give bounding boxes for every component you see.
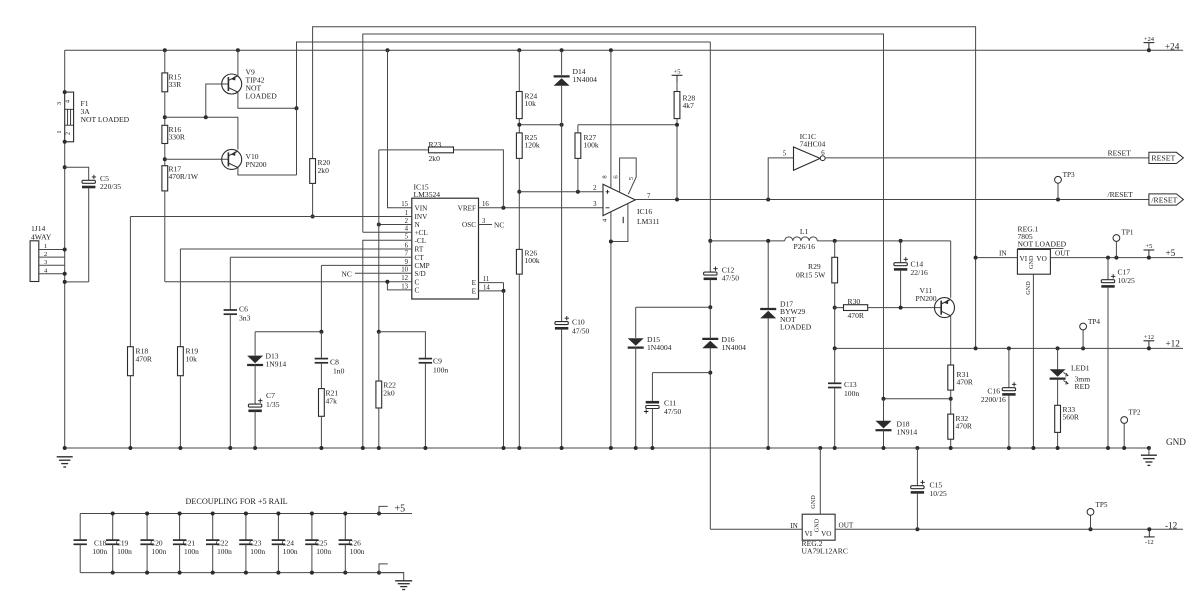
svg-text:PN200: PN200 xyxy=(246,160,267,169)
ground main left xyxy=(57,457,73,467)
svg-text:VO: VO xyxy=(821,530,831,538)
svg-text:R23: R23 xyxy=(429,140,442,149)
resistor R32 xyxy=(948,414,954,439)
resistor R30 xyxy=(844,305,868,311)
svg-text:LM3524: LM3524 xyxy=(414,190,441,199)
capacitor C14 xyxy=(900,241,902,263)
wire R28 bottom to output xyxy=(676,119,678,200)
transistor V11 PN200 xyxy=(935,298,955,318)
node R15/R16 junction xyxy=(163,115,167,119)
svg-text:E: E xyxy=(472,288,477,296)
node N junction R22 xyxy=(377,223,381,227)
svg-text:16: 16 xyxy=(482,201,489,208)
wire VREF pin16 line xyxy=(479,207,604,209)
resistor R25 xyxy=(516,133,522,159)
svg-text:100k: 100k xyxy=(525,256,540,265)
svg-text:TP2: TP2 xyxy=(1129,409,1141,417)
svg-text:C7: C7 xyxy=(266,391,275,400)
svg-text:RED: RED xyxy=(1075,382,1091,391)
wire -12 rail xyxy=(835,528,1183,530)
capacitor C10 xyxy=(555,316,569,328)
capacitor C21 xyxy=(179,514,181,541)
svg-text:6: 6 xyxy=(821,150,825,157)
wire E pins 11/14 xyxy=(479,282,504,284)
svg-text:+12: +12 xyxy=(1144,334,1154,341)
connector 1J14 xyxy=(30,241,39,282)
capacitor C20 xyxy=(146,514,148,541)
svg-text:7: 7 xyxy=(405,251,409,258)
resistor R24 xyxy=(518,50,520,91)
svg-text:100n: 100n xyxy=(350,547,365,556)
svg-text:NC: NC xyxy=(342,269,352,278)
svg-text:560R: 560R xyxy=(1063,413,1080,422)
node R25/R26 to comparator xyxy=(517,190,521,194)
resistor R19 xyxy=(179,249,181,347)
svg-text:C8: C8 xyxy=(330,357,339,366)
svg-text:1N4004: 1N4004 xyxy=(573,75,598,84)
capacitor C15 xyxy=(916,448,918,486)
wire R25 to R26 xyxy=(518,158,520,249)
wire 1J14 pin 1 xyxy=(39,249,65,251)
svg-text:PN200: PN200 xyxy=(916,294,937,303)
capacitor C18 xyxy=(79,514,81,541)
flag /RESET xyxy=(1149,194,1184,205)
capacitor C16 xyxy=(1008,348,1010,387)
svg-text:GND: GND xyxy=(1025,281,1032,295)
node R20 to INV xyxy=(311,215,315,219)
svg-text:C26: C26 xyxy=(349,539,362,548)
svg-text:L1: L1 xyxy=(800,227,809,236)
svg-text:1/35: 1/35 xyxy=(266,400,280,409)
svg-text:-12: -12 xyxy=(1165,521,1178,531)
svg-text:470R: 470R xyxy=(136,355,153,364)
power flag +24 xyxy=(1148,43,1150,51)
svg-text:100n: 100n xyxy=(283,547,298,556)
node R29/R30 junction xyxy=(833,306,837,310)
resistor R27 xyxy=(575,133,581,159)
svg-text:3: 3 xyxy=(482,218,486,225)
ground decoupling xyxy=(395,581,412,590)
svg-text:P26/16: P26/16 xyxy=(794,242,816,251)
svg-text:IC16: IC16 xyxy=(637,207,652,216)
power flag +5 xyxy=(1148,250,1150,258)
svg-text:TP3: TP3 xyxy=(1063,171,1075,179)
svg-text:100k: 100k xyxy=(584,141,599,150)
svg-text:470R: 470R xyxy=(957,378,974,387)
wire +5 rail xyxy=(1050,257,1183,259)
svg-text:VREF: VREF xyxy=(458,204,476,212)
svg-text:10/25: 10/25 xyxy=(930,489,948,498)
svg-text:2: 2 xyxy=(44,251,47,258)
svg-text:11: 11 xyxy=(483,276,490,283)
svg-text:1N4004: 1N4004 xyxy=(647,343,672,352)
svg-text:10k: 10k xyxy=(525,99,537,108)
node emitter tie xyxy=(295,106,299,110)
resistor R22 xyxy=(376,381,382,408)
test point TP5 xyxy=(1090,515,1092,529)
svg-text:+CL: +CL xyxy=(415,229,428,237)
svg-text:C20: C20 xyxy=(150,539,163,548)
node fuse junctions xyxy=(63,90,67,169)
wire R17 bottom to LM3524 C pins xyxy=(164,191,166,282)
node decoupling top junctions xyxy=(111,512,381,516)
svg-text:4WAY: 4WAY xyxy=(31,233,52,242)
svg-text:VI: VI xyxy=(1020,255,1028,263)
wire decoupling +5 rail xyxy=(80,513,412,515)
svg-text:LED1: LED1 xyxy=(1071,364,1090,373)
svg-text:+5: +5 xyxy=(395,503,406,514)
svg-text:RESET: RESET xyxy=(1108,148,1132,157)
node LM311 ground strap xyxy=(609,240,613,244)
svg-text:C: C xyxy=(415,287,420,295)
svg-text:470R: 470R xyxy=(848,311,865,320)
wire V10 base xyxy=(165,158,229,160)
wire CMP pin9 line xyxy=(321,264,411,266)
wire R29 bottom xyxy=(834,283,836,308)
svg-text:470R: 470R xyxy=(956,422,973,431)
wire INV pin1 line xyxy=(130,216,411,218)
svg-text:C23: C23 xyxy=(249,539,262,548)
diode D14 1N4004 xyxy=(561,50,563,75)
svg-text:2k0: 2k0 xyxy=(383,389,395,398)
test point TP4 xyxy=(1082,330,1084,349)
node decoupling bottom junctions xyxy=(111,571,381,575)
svg-text:10: 10 xyxy=(401,267,408,274)
wire LM311 pins 1/4 to ground xyxy=(610,212,612,242)
svg-text:1N4004: 1N4004 xyxy=(722,343,747,352)
wire D14 column to C10 xyxy=(561,86,563,322)
svg-text:100n: 100n xyxy=(250,547,265,556)
wire C pins 12/13 xyxy=(165,281,412,283)
capacitor C12 xyxy=(709,241,711,272)
svg-text:NOT LOADED: NOT LOADED xyxy=(81,115,130,124)
svg-text:100n: 100n xyxy=(316,547,331,556)
capacitor C9 xyxy=(379,332,426,359)
wire top feedback line y27 (R20 top to REG1 in) xyxy=(313,27,976,349)
svg-text:C18: C18 xyxy=(94,539,107,548)
capacitor C22 xyxy=(212,514,214,541)
capacitor C23 xyxy=(245,514,247,541)
node +24 rail junctions xyxy=(163,48,1151,52)
svg-text:2200/16: 2200/16 xyxy=(981,395,1006,404)
node CMP junction xyxy=(319,330,323,334)
svg-text:330R: 330R xyxy=(169,133,186,142)
node +12 rail junctions xyxy=(833,346,1151,350)
transistor V10 PN200 xyxy=(222,149,242,169)
svg-text:C: C xyxy=(415,278,420,286)
svg-text:VI: VI xyxy=(805,530,813,538)
wire +CL sense line y34 xyxy=(363,34,884,399)
diode D15 1N4004 xyxy=(635,307,637,338)
wire GND rail xyxy=(65,447,1149,449)
svg-text:GND: GND xyxy=(810,495,817,509)
svg-text:0R15 5W: 0R15 5W xyxy=(796,271,826,280)
power flag +5 at R28 xyxy=(676,75,678,83)
svg-text:C22: C22 xyxy=(216,539,229,548)
svg-text:47/50: 47/50 xyxy=(572,327,590,336)
wire R24/R25 junction xyxy=(518,119,520,133)
svg-text:22/16: 22/16 xyxy=(911,268,929,277)
wire S/D pin10 NC stub xyxy=(355,272,412,274)
diode LED1 xyxy=(1057,348,1059,370)
wire C5 branch xyxy=(65,167,89,180)
svg-text:C19: C19 xyxy=(116,539,129,548)
svg-text:1: 1 xyxy=(56,130,63,133)
svg-text:6: 6 xyxy=(405,242,409,249)
test point TP2 xyxy=(1123,423,1125,448)
node C14 bottom junction xyxy=(899,306,903,310)
wire -12 feed to REG2 xyxy=(710,528,802,530)
node D17 top xyxy=(766,239,770,243)
svg-text:47/50: 47/50 xyxy=(722,273,740,282)
svg-text:-12: -12 xyxy=(1145,539,1154,546)
svg-text:E: E xyxy=(472,279,477,287)
wire C5 bottom to main xyxy=(65,281,89,283)
resistor R28 xyxy=(674,92,680,119)
svg-text:DECOUPLING FOR +5 RAIL: DECOUPLING FOR +5 RAIL xyxy=(186,497,288,506)
svg-text:4k7: 4k7 xyxy=(683,101,695,110)
wire D16 to C11 and -12 feed xyxy=(709,348,711,530)
svg-text:100n: 100n xyxy=(92,547,107,556)
wire base V9 / collector V10 xyxy=(165,117,238,149)
svg-text:2k0: 2k0 xyxy=(318,166,330,175)
svg-text:+5: +5 xyxy=(1145,243,1153,250)
svg-text:GND: GND xyxy=(1028,255,1035,269)
resistor R17 xyxy=(162,166,168,191)
svg-text:C13: C13 xyxy=(844,380,857,389)
wire to D15 xyxy=(636,306,711,308)
svg-text:100n: 100n xyxy=(217,547,232,556)
svg-text:OUT: OUT xyxy=(839,521,854,529)
node R28 junction xyxy=(675,123,679,127)
svg-text:INV: INV xyxy=(415,213,429,221)
diode D13 1N914 xyxy=(254,332,256,356)
test point TP3 xyxy=(1057,183,1059,199)
svg-text:UA79L12ARC: UA79L12ARC xyxy=(802,547,848,556)
svg-text:LOADED: LOADED xyxy=(246,92,278,101)
wire REG1 gnd to ground rail xyxy=(1032,274,1034,448)
wire switch node down xyxy=(709,42,711,241)
svg-text:C6: C6 xyxy=(239,305,248,314)
op-amp IC15 LM3524 box xyxy=(412,198,479,299)
power flag -12 xyxy=(1148,529,1150,537)
inverter IC1C 74HC04 xyxy=(794,147,826,170)
capacitor C7 xyxy=(254,364,256,404)
svg-text:2k0: 2k0 xyxy=(429,154,441,163)
resistor R26 xyxy=(516,249,522,274)
resistor R18 xyxy=(129,217,131,347)
resistor R21 xyxy=(319,389,325,417)
svg-text:NC: NC xyxy=(494,220,504,229)
svg-text:1: 1 xyxy=(44,243,47,250)
svg-text:C25: C25 xyxy=(315,539,328,548)
wire R16-R17 xyxy=(164,144,166,166)
node sense junction xyxy=(882,397,886,401)
svg-text:RT: RT xyxy=(415,246,424,254)
wire RT pin6 line xyxy=(180,248,411,250)
wire +CL pin4 stub xyxy=(363,231,412,233)
capacitor C24 xyxy=(277,514,279,541)
regulator REG.2 UA79L12ARC xyxy=(802,514,835,540)
wire +12 rail xyxy=(835,347,1183,349)
wire emitter switch line y42 xyxy=(297,42,711,175)
ground main right xyxy=(1148,448,1150,455)
svg-text:10k: 10k xyxy=(186,355,198,364)
wire V11 collector to R31 xyxy=(950,316,952,365)
svg-text:C9: C9 xyxy=(433,357,442,366)
svg-text:C21: C21 xyxy=(183,539,196,548)
svg-text:/RESET: /RESET xyxy=(1107,190,1133,199)
resistor R16 xyxy=(162,125,168,143)
node L1 output junctions xyxy=(833,239,903,243)
svg-text:GND: GND xyxy=(813,518,820,532)
svg-text:4: 4 xyxy=(405,226,409,233)
svg-text:+5: +5 xyxy=(1166,248,1176,258)
resistor R23 xyxy=(379,149,429,151)
capacitor C26 xyxy=(344,514,346,541)
capacitor C5 xyxy=(82,175,96,187)
resistor R20 xyxy=(310,159,316,184)
wire V9 emitter xyxy=(238,92,297,108)
svg-text:1n0: 1n0 xyxy=(333,366,345,375)
wire inverter input xyxy=(768,158,793,200)
svg-text:TP4: TP4 xyxy=(1088,318,1100,326)
power flag +12 xyxy=(1148,341,1150,349)
test point TP1 xyxy=(1115,241,1117,257)
wire decoupling gnd rail xyxy=(80,572,404,574)
svg-text:2: 2 xyxy=(593,185,597,192)
svg-text:R30: R30 xyxy=(848,297,861,306)
resistor R29 xyxy=(834,241,836,257)
svg-text:+24: +24 xyxy=(1144,36,1155,43)
wire V10 emitter xyxy=(238,108,297,175)
svg-text:220/35: 220/35 xyxy=(100,182,121,191)
node V10 base junction xyxy=(163,157,167,161)
wire LM311 pin8 to +24 xyxy=(610,50,612,188)
resistor R31 xyxy=(948,365,954,390)
svg-text:/RESET: /RESET xyxy=(1151,195,1177,204)
node output junctions xyxy=(675,198,1060,202)
svg-text:RESET: RESET xyxy=(1151,154,1175,163)
svg-text:1: 1 xyxy=(405,210,408,217)
svg-text:TP5: TP5 xyxy=(1096,501,1108,509)
capacitor C19 xyxy=(112,514,114,541)
inductor L1 xyxy=(785,237,818,241)
node R31/R32 xyxy=(949,397,953,401)
node C pins junction xyxy=(385,280,389,284)
wire 1J14 pin 3 xyxy=(39,264,65,266)
svg-text:GND: GND xyxy=(1166,437,1186,447)
wire +24 rail xyxy=(65,49,1183,51)
wire comparator output /RESET line xyxy=(635,199,1149,201)
node GND rail junctions xyxy=(63,446,1151,450)
svg-text:2: 2 xyxy=(64,132,71,135)
svg-text:1N914: 1N914 xyxy=(266,360,287,369)
svg-text:IN: IN xyxy=(790,522,798,530)
svg-text:100n: 100n xyxy=(433,366,448,375)
svg-text:+12: +12 xyxy=(1166,339,1181,349)
node switch junction xyxy=(708,239,712,243)
svg-text:VIN: VIN xyxy=(415,204,429,212)
svg-text:TP1: TP1 xyxy=(1122,229,1134,237)
wire RESET line xyxy=(825,157,1149,159)
svg-text:OUT: OUT xyxy=(1055,249,1070,257)
node R27 to plus input xyxy=(576,190,580,194)
svg-text:10/25: 10/25 xyxy=(1118,276,1136,285)
svg-text:12: 12 xyxy=(401,275,408,282)
power tap +5 decoupling xyxy=(379,506,388,513)
ground tap decoupling xyxy=(379,564,388,573)
wire R31/R32 junction xyxy=(950,390,952,414)
svg-text:47k: 47k xyxy=(326,397,338,406)
node R24/R25/D14 xyxy=(517,123,563,127)
svg-text:-CL: -CL xyxy=(415,237,427,245)
svg-text:3: 3 xyxy=(56,102,63,105)
resistor R33 xyxy=(1057,379,1059,406)
wire LM311 pins 5/6 strap xyxy=(620,158,637,194)
wire 1J14 pin 2 xyxy=(39,256,65,258)
diode D18 1N914 xyxy=(883,399,885,422)
svg-text:3n3: 3n3 xyxy=(239,314,251,323)
svg-text:CT: CT xyxy=(415,254,425,262)
svg-text:470R/1W: 470R/1W xyxy=(169,172,199,181)
svg-text:13: 13 xyxy=(401,283,408,290)
wire R20 bottom xyxy=(312,183,314,216)
svg-text:+5: +5 xyxy=(673,69,681,76)
svg-text:5: 5 xyxy=(405,234,409,241)
diode D17 BYW29 xyxy=(767,241,769,309)
svg-text:VO: VO xyxy=(1036,255,1046,263)
svg-text:33R: 33R xyxy=(169,80,183,89)
svg-text:IN: IN xyxy=(999,249,1007,257)
capacitor C25 xyxy=(311,514,313,541)
svg-text:15: 15 xyxy=(401,201,408,208)
svg-text:3: 3 xyxy=(593,201,597,208)
regulator REG.1 7805 xyxy=(1017,249,1050,274)
wire CMP to C8/D13 xyxy=(320,265,322,331)
svg-text:100n: 100n xyxy=(184,547,199,556)
svg-text:C24: C24 xyxy=(282,539,295,548)
svg-text:CMP: CMP xyxy=(415,262,430,270)
node +5 rail junctions xyxy=(1106,256,1151,260)
svg-text:LOADED: LOADED xyxy=(780,323,812,332)
wire comparator plus input line xyxy=(519,191,603,193)
svg-text:7: 7 xyxy=(647,193,651,200)
node -12 rail junctions xyxy=(915,527,1151,531)
svg-text:120k: 120k xyxy=(525,141,540,150)
svg-text:OSC: OSC xyxy=(462,221,476,229)
node charge pump node xyxy=(708,305,712,309)
wire R22 column xyxy=(378,150,380,332)
svg-text:C10: C10 xyxy=(572,318,585,327)
svg-text:100n: 100n xyxy=(152,547,167,556)
node C11 junction xyxy=(708,371,712,375)
svg-text:+24: +24 xyxy=(1165,41,1180,51)
wire R15-R16 xyxy=(164,92,166,126)
wire CT pin7 line xyxy=(230,256,411,258)
wire current sense to divider xyxy=(884,398,951,400)
capacitor C8 xyxy=(315,359,328,363)
transistor V9 TIP42 xyxy=(222,74,242,94)
capacitor C11 xyxy=(652,372,710,374)
node E pins junction xyxy=(502,289,506,293)
wire E pins to ground xyxy=(503,291,505,448)
svg-text:S/D: S/D xyxy=(415,270,426,278)
node R22/C9 junction xyxy=(377,330,381,334)
wire N pin2 line xyxy=(379,224,412,226)
flag RESET xyxy=(1149,152,1184,163)
node VREF/R23 junction xyxy=(501,206,505,210)
